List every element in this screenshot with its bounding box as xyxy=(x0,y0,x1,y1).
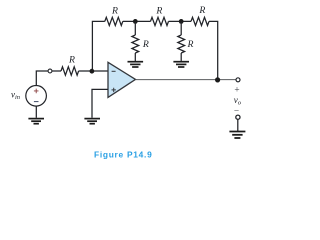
junction dot2 xyxy=(179,19,184,24)
feedback vertical wire left xyxy=(92,21,104,71)
ground output xyxy=(229,132,245,139)
svg-text:R: R xyxy=(187,39,194,50)
source minus sign xyxy=(34,101,39,103)
resistor R top2 xyxy=(151,17,169,25)
ground noninverting xyxy=(84,119,100,124)
wire noninverting input to ground xyxy=(92,89,108,117)
input terminal xyxy=(48,69,52,73)
wire top2 to dot2 xyxy=(169,20,192,22)
output terminal top xyxy=(236,78,240,82)
wire bottom terminal to ground xyxy=(237,119,239,131)
svg-text:vin: vin xyxy=(11,89,20,101)
svg-text:R: R xyxy=(111,5,118,16)
shunt resistor R left zigzag xyxy=(132,35,139,53)
resistor R top3 xyxy=(191,17,209,25)
svg-text:R: R xyxy=(68,55,75,66)
svg-text:+: + xyxy=(234,86,239,96)
junction dot1 xyxy=(133,19,138,24)
svg-text:vo: vo xyxy=(234,95,242,107)
op-amp plus xyxy=(112,88,116,92)
output junction dot xyxy=(215,77,220,82)
wire resistor to junction to op-amp xyxy=(79,70,108,72)
resistor R input xyxy=(61,67,79,75)
wire top3 to right corner and down to output xyxy=(209,21,218,79)
op-amp U1 xyxy=(108,62,136,97)
shunt resistor 2 vertical lead xyxy=(180,21,182,35)
ground shunt2 xyxy=(173,62,189,67)
shunt resistor R right zigzag xyxy=(178,35,185,53)
svg-text:R: R xyxy=(155,5,162,16)
ground source xyxy=(28,119,44,124)
svg-text:R: R xyxy=(142,39,149,50)
wire top1 to dot1 xyxy=(123,20,151,22)
wire source top to input wire xyxy=(36,71,48,86)
svg-text:Figure P14.9: Figure P14.9 xyxy=(94,149,152,159)
resistor R top1 xyxy=(105,17,123,25)
junction node inverting input xyxy=(90,69,95,74)
output terminal bottom xyxy=(236,115,240,119)
output wire xyxy=(136,79,237,81)
svg-text:R: R xyxy=(198,5,205,16)
shunt1 lead to ground xyxy=(134,53,136,61)
source vin circle xyxy=(26,86,47,107)
shunt resistor R1 vertical lead xyxy=(134,21,136,35)
op-amp minus xyxy=(112,70,116,72)
source ground wire xyxy=(35,106,37,118)
ground shunt1 xyxy=(128,62,144,67)
shunt2 lead to ground xyxy=(180,53,182,61)
wire terminal to resistor xyxy=(52,70,61,72)
source plus sign xyxy=(34,89,39,94)
